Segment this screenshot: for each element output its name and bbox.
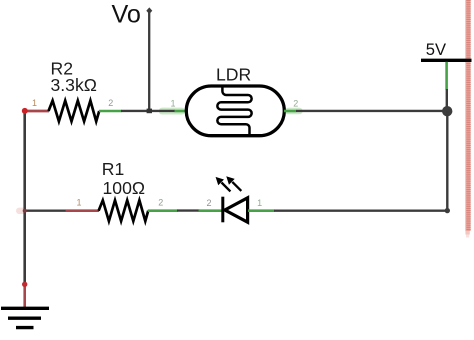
svg-text:3.3kΩ: 3.3kΩ bbox=[51, 75, 97, 95]
LED pin2 green stub bbox=[199, 209, 223, 212]
wire LED to right rail bbox=[274, 209, 447, 211]
wire R2 to Vo node bbox=[121, 110, 175, 112]
LDR meander track bbox=[217, 86, 251, 136]
pin end diamond (Vo net tip) bbox=[146, 7, 152, 14]
ground bar 1 bbox=[1, 307, 49, 310]
junction node A (red dot) bbox=[22, 108, 28, 114]
LED D1 cathode bar bbox=[221, 197, 224, 223]
wire 5V stub to junction bbox=[446, 89, 448, 111]
LED arrow 1 bbox=[217, 178, 231, 191]
LED D1 triangle bbox=[225, 198, 248, 222]
svg-text:100Ω: 100Ω bbox=[103, 178, 146, 198]
wire R1 to LED bbox=[177, 209, 200, 211]
svg-text:Vo: Vo bbox=[112, 1, 141, 29]
svg-text:R1: R1 bbox=[102, 159, 125, 179]
resistor R2 pin2 green stub bbox=[99, 110, 122, 113]
junction dot R1 branch (dark red) bbox=[23, 209, 27, 213]
wire left rail to R1 bbox=[25, 209, 67, 211]
resistor R1 zigzag bbox=[99, 200, 149, 221]
LDR pin2 green stub bbox=[284, 110, 296, 113]
resistor R1 pin2 green stub bbox=[148, 209, 178, 212]
wire ground red stub bbox=[23, 284, 26, 308]
halo LDR pin2 bbox=[285, 108, 303, 115]
power 5V pin green stub bbox=[445, 62, 448, 90]
svg-text:2: 2 bbox=[206, 198, 211, 208]
resistor R2 zigzag bbox=[49, 101, 100, 122]
svg-text:LDR: LDR bbox=[216, 64, 251, 84]
wire left rail vertical (node A to ground) bbox=[23, 111, 26, 284]
junction dot 5V node bbox=[442, 106, 452, 116]
power 5V rail bar bbox=[421, 59, 472, 62]
resistor R2 pin1 red stub bbox=[25, 110, 49, 113]
svg-text:1: 1 bbox=[32, 98, 37, 108]
halo LDR pin1 bbox=[159, 108, 185, 115]
LDR pin1 green stub bbox=[175, 110, 188, 113]
junction dot ground pin (red) bbox=[22, 282, 27, 287]
wire LDR to 5V junction bbox=[296, 110, 447, 112]
svg-text:1: 1 bbox=[257, 198, 262, 208]
junction Vo tap (T blob) bbox=[147, 109, 152, 114]
svg-text:1: 1 bbox=[170, 98, 175, 108]
selection marquee strip (right edge) bbox=[465, 0, 471, 238]
svg-text:2: 2 bbox=[158, 198, 163, 208]
wire Vo vertical bbox=[148, 11, 150, 111]
svg-text:2: 2 bbox=[293, 98, 298, 108]
LED arrow 2 bbox=[228, 178, 242, 191]
ground bar 2 bbox=[8, 317, 41, 320]
svg-text:2: 2 bbox=[108, 98, 113, 108]
junction dot right corner bbox=[445, 208, 450, 213]
wire right rail vertical bbox=[446, 111, 448, 211]
LED pin1 green stub bbox=[248, 209, 275, 212]
resistor R1 pin1 red stub bbox=[66, 209, 99, 212]
photoresistor LDR body (stadium) bbox=[186, 86, 284, 136]
svg-text:1: 1 bbox=[76, 198, 81, 208]
ground bar 3 bbox=[16, 326, 34, 329]
svg-text:5V: 5V bbox=[426, 40, 446, 59]
halo R1 pin1 junction bbox=[16, 208, 27, 214]
